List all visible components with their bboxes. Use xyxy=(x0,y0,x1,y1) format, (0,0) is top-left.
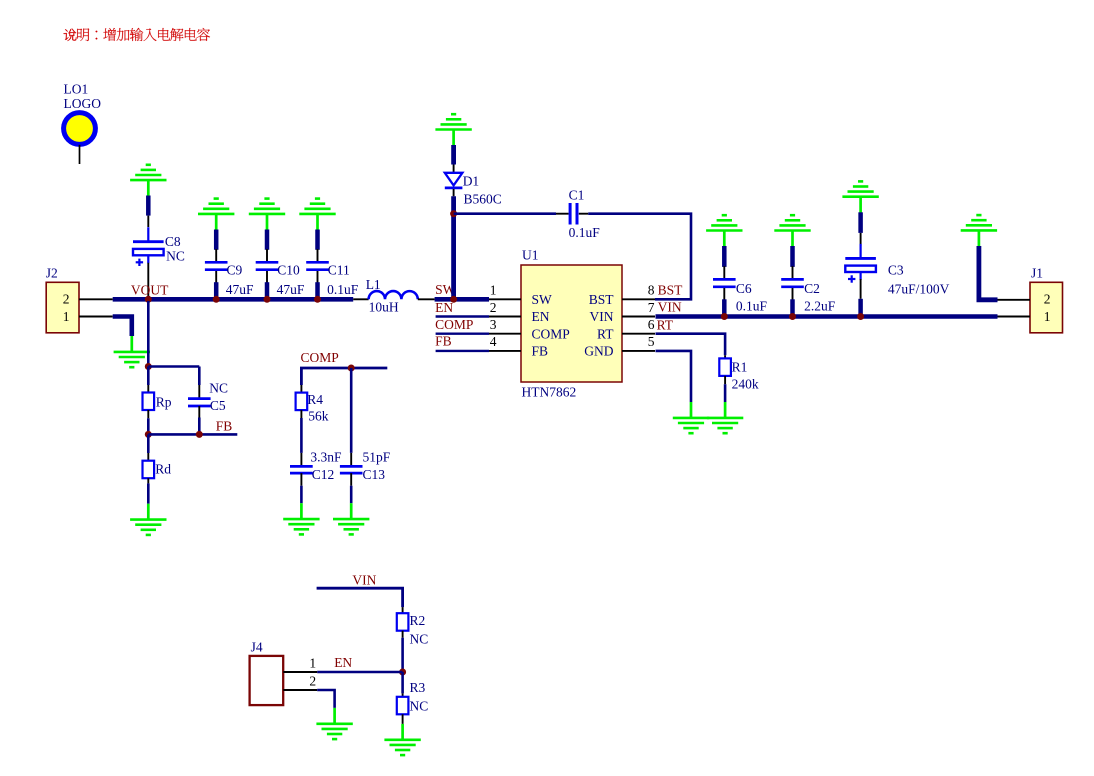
wire C8 bottom lead xyxy=(147,263,149,298)
svg-text:FB: FB xyxy=(216,418,233,433)
wire J2.1 to ground xyxy=(113,317,132,337)
svg-text:0.1uF: 0.1uF xyxy=(569,225,601,240)
diode D1 xyxy=(445,173,463,197)
ground at U1 GND xyxy=(673,402,709,433)
svg-text:EN: EN xyxy=(435,300,453,315)
label J2 xyxy=(46,266,58,281)
net label FB xyxy=(216,418,233,433)
IC U1 body xyxy=(521,265,622,382)
svg-text:J1: J1 xyxy=(1031,266,1043,281)
wire COMP-C13 xyxy=(350,368,353,453)
net label RT xyxy=(657,317,674,332)
svg-text:2: 2 xyxy=(1044,292,1051,307)
svg-text:NC: NC xyxy=(410,698,429,713)
svg-text:BST: BST xyxy=(589,292,615,307)
pin U1.8 BST xyxy=(589,283,655,307)
svg-text:VIN: VIN xyxy=(590,309,614,324)
capacitor C1 xyxy=(570,203,577,225)
ground below Rd xyxy=(130,504,166,535)
label D1 B560C xyxy=(463,174,502,207)
ground above C6 xyxy=(706,215,742,246)
svg-text:C6: C6 xyxy=(736,281,752,296)
label Rd xyxy=(155,462,171,477)
svg-text:D1: D1 xyxy=(463,174,480,189)
svg-text:C13: C13 xyxy=(363,467,386,482)
pin U1.5 GND xyxy=(584,334,655,358)
svg-text:1: 1 xyxy=(490,283,497,298)
capacitor C3 xyxy=(845,244,876,283)
label C8 NC xyxy=(165,234,185,264)
svg-text:6: 6 xyxy=(648,317,655,332)
junction VOUT-C8 xyxy=(145,296,152,303)
svg-text:0.1uF: 0.1uF xyxy=(327,282,359,297)
ground above C3 xyxy=(842,181,878,212)
pin J2.1 xyxy=(63,309,113,324)
wire to C1 xyxy=(454,212,569,215)
label C11 xyxy=(327,262,359,297)
svg-text:47uF: 47uF xyxy=(226,282,254,297)
wire SW xyxy=(435,297,489,302)
pin J4.2 xyxy=(283,673,317,690)
junction VIN-C6 xyxy=(721,313,728,320)
svg-text:5: 5 xyxy=(648,334,655,349)
junction D1-C1 xyxy=(450,210,457,217)
wire J4.2 to ground xyxy=(317,690,334,708)
wire COMP stub xyxy=(436,333,489,335)
label R2 NC xyxy=(410,613,429,647)
wire EN net xyxy=(317,671,402,674)
pin U1.7 VIN xyxy=(590,300,656,324)
svg-text:COMP: COMP xyxy=(301,350,339,365)
label C6 xyxy=(736,281,768,313)
label C5 NC xyxy=(209,380,228,413)
junction VIN-C3 xyxy=(857,313,864,320)
wire COMP net xyxy=(301,368,387,385)
svg-text:VIN: VIN xyxy=(352,572,376,587)
svg-text:56k: 56k xyxy=(308,409,329,424)
capacitor C10 xyxy=(256,230,279,300)
label C13 51pF xyxy=(363,449,391,482)
wire Rp bottom xyxy=(147,418,150,434)
net label FB xyxy=(435,333,452,348)
resistor R3 xyxy=(397,672,409,724)
svg-text:C11: C11 xyxy=(328,262,350,277)
wire FB xyxy=(148,418,237,435)
svg-text:HTN7862: HTN7862 xyxy=(522,385,577,400)
svg-text:1: 1 xyxy=(63,309,70,324)
net label VIN2 xyxy=(352,572,376,587)
svg-text:NC: NC xyxy=(410,631,429,646)
svg-text:47uF: 47uF xyxy=(277,282,305,297)
wire C3 bottom xyxy=(860,279,862,317)
svg-text:LO1: LO1 xyxy=(64,82,89,97)
capacitor C12 xyxy=(290,453,313,503)
net label VIN xyxy=(658,300,682,315)
wire VIN bus xyxy=(656,314,998,319)
svg-text:51pF: 51pF xyxy=(363,449,391,464)
svg-text:C2: C2 xyxy=(804,281,820,296)
svg-text:8: 8 xyxy=(648,283,655,298)
label Rp xyxy=(156,395,172,410)
capacitor C13 xyxy=(340,453,363,503)
wire VOUT bus xyxy=(113,297,354,302)
capacitor C2 xyxy=(781,246,804,317)
junction VOUT-C11 xyxy=(314,296,321,303)
label C9 xyxy=(226,262,254,297)
svg-text:2: 2 xyxy=(490,300,497,315)
svg-text:L1: L1 xyxy=(366,277,381,292)
net label EN xyxy=(435,300,453,315)
svg-text:VIN: VIN xyxy=(658,300,682,315)
label C10 xyxy=(277,262,305,297)
svg-text:J4: J4 xyxy=(251,639,263,654)
note text "说明：增加输入电解电容" xyxy=(63,28,210,41)
label R3 NC xyxy=(410,680,429,713)
svg-text:R4: R4 xyxy=(307,392,323,407)
ground at J2 xyxy=(114,336,150,367)
wire C1 to BST xyxy=(579,214,691,300)
svg-text:C12: C12 xyxy=(312,467,335,482)
svg-text:COMP: COMP xyxy=(532,326,570,341)
resistor Rd xyxy=(143,434,155,503)
capacitor C6 xyxy=(713,246,736,317)
ground above J1 xyxy=(961,215,997,246)
net label EN2 xyxy=(334,655,352,670)
svg-text:4: 4 xyxy=(490,334,497,349)
svg-text:2: 2 xyxy=(309,673,316,688)
ground above C9 xyxy=(198,199,234,230)
pin J2.2 xyxy=(63,292,113,307)
ground above D1 xyxy=(435,114,471,145)
pin U1.2 EN xyxy=(489,300,550,324)
pin J4.1 xyxy=(283,656,317,673)
capacitor C11 xyxy=(306,230,329,300)
connector J2 xyxy=(46,282,79,333)
wire GND pin to ground xyxy=(656,351,692,402)
ground above C10 xyxy=(249,199,285,230)
svg-text:U1: U1 xyxy=(522,248,539,263)
svg-text:RT: RT xyxy=(597,326,614,341)
svg-text:GND: GND xyxy=(584,344,613,359)
ground below R3 xyxy=(384,724,420,755)
svg-text:R1: R1 xyxy=(732,359,748,374)
junction VOUT-C9 xyxy=(213,296,220,303)
svg-text:EN: EN xyxy=(532,309,550,324)
junction SW xyxy=(450,296,457,303)
svg-text:R3: R3 xyxy=(410,680,426,695)
ground below C12 xyxy=(283,503,319,534)
net label VOUT xyxy=(131,282,169,297)
svg-text:47uF/100V: 47uF/100V xyxy=(888,282,950,297)
label L1 xyxy=(366,277,399,315)
ground below R1 xyxy=(707,402,743,433)
label C12 3.3nF xyxy=(310,449,342,482)
label C3 xyxy=(888,263,950,297)
capacitor C9 xyxy=(205,230,228,300)
net label COMP2 xyxy=(301,350,339,365)
wire VIN bottom xyxy=(317,588,403,607)
logo LO1 symbol xyxy=(64,113,96,164)
resistor R2 xyxy=(397,607,409,672)
svg-text:COMP: COMP xyxy=(435,317,473,332)
net label BST xyxy=(658,283,684,298)
pin U1.3 COMP xyxy=(489,317,570,341)
svg-text:C5: C5 xyxy=(210,398,226,413)
svg-text:FB: FB xyxy=(435,333,452,348)
svg-text:1: 1 xyxy=(1044,309,1051,324)
pin J1.1 xyxy=(998,309,1051,324)
svg-text:0.1uF: 0.1uF xyxy=(736,298,768,313)
svg-text:Rd: Rd xyxy=(155,462,171,477)
svg-text:SW: SW xyxy=(532,292,553,307)
label C1 xyxy=(569,188,601,240)
svg-text:NC: NC xyxy=(209,380,228,395)
svg-text:C10: C10 xyxy=(277,262,300,277)
ground above C8 xyxy=(130,165,166,196)
pin U1.4 FB xyxy=(489,334,548,358)
svg-text:Rp: Rp xyxy=(156,395,172,410)
junction FB right xyxy=(196,431,203,438)
junction FB left xyxy=(145,431,152,438)
svg-text:J2: J2 xyxy=(46,266,58,281)
svg-text:2.2uF: 2.2uF xyxy=(804,298,836,313)
capacitor C8 xyxy=(133,227,164,266)
svg-text:C8: C8 xyxy=(165,234,181,249)
svg-text:240k: 240k xyxy=(732,376,759,391)
junction Rp-C5 top xyxy=(145,363,152,370)
svg-text:C3: C3 xyxy=(888,263,904,278)
wire top to C5 xyxy=(148,367,199,386)
svg-text:EN: EN xyxy=(334,655,352,670)
wire D1 to SW xyxy=(451,196,456,299)
svg-text:1: 1 xyxy=(309,656,316,671)
svg-text:10uH: 10uH xyxy=(369,300,399,315)
label J4 xyxy=(251,639,263,654)
net label SW xyxy=(435,282,456,297)
resistor R1 xyxy=(719,355,731,402)
wire C8 top stub xyxy=(146,196,151,228)
svg-text:B560C: B560C xyxy=(464,192,502,207)
resistor Rp xyxy=(143,367,155,419)
svg-text:FB: FB xyxy=(532,344,549,359)
svg-text:3.3nF: 3.3nF xyxy=(310,449,342,464)
wire D1 top stub xyxy=(451,145,456,173)
junction VOUT-C10 xyxy=(264,296,271,303)
label C2 xyxy=(804,281,836,313)
svg-text:NC: NC xyxy=(166,249,185,264)
svg-text:2: 2 xyxy=(63,292,70,307)
pin J1.2 xyxy=(998,292,1051,307)
svg-text:BST: BST xyxy=(658,283,684,298)
wire EN stub xyxy=(436,315,489,317)
logo LO1 labels xyxy=(64,82,102,112)
label U1 xyxy=(522,248,539,263)
wire RT to R1 xyxy=(656,334,726,356)
svg-text:3: 3 xyxy=(490,317,497,332)
capacitor C5 xyxy=(188,385,211,418)
label J1 xyxy=(1031,266,1043,281)
junction EN xyxy=(399,669,406,676)
ground above C11 xyxy=(299,199,335,230)
wire VOUT down xyxy=(147,301,150,367)
junction COMP-C13 xyxy=(348,365,355,372)
svg-text:VOUT: VOUT xyxy=(131,282,169,297)
svg-text:C9: C9 xyxy=(227,262,243,277)
svg-text:LOGO: LOGO xyxy=(64,96,102,111)
svg-text:R2: R2 xyxy=(410,613,426,628)
ground above C2 xyxy=(774,215,810,246)
wire ground to J1.2 xyxy=(979,246,998,300)
svg-text:C1: C1 xyxy=(569,188,585,203)
svg-text:RT: RT xyxy=(657,317,674,332)
pin U1.6 RT xyxy=(597,317,655,341)
resistor R4 xyxy=(296,385,308,453)
label HTN7862 xyxy=(522,385,577,400)
wire C3 top stub xyxy=(858,212,863,246)
pin U1.1 SW xyxy=(489,283,552,307)
label R4 56k xyxy=(307,392,329,424)
ground below C13 xyxy=(333,503,369,534)
inductor L1 xyxy=(353,291,434,299)
ground at J4 xyxy=(316,708,352,739)
svg-text:7: 7 xyxy=(648,300,655,315)
wire FB stub xyxy=(436,350,489,352)
connector J4 xyxy=(250,656,284,705)
label R1 240k xyxy=(732,359,759,391)
connector J1 xyxy=(1030,282,1063,333)
net label COMP xyxy=(435,317,473,332)
junction VIN-C2 xyxy=(789,313,796,320)
